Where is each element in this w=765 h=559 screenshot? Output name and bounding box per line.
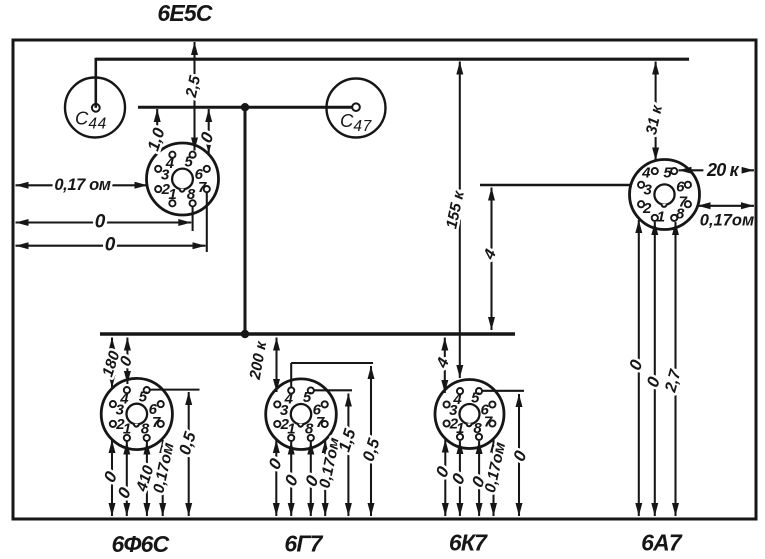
capacitor C44 [65,78,125,138]
svg-text:20 к: 20 к [706,160,740,180]
svg-text:6Ф6С: 6Ф6С [112,531,170,557]
wire: extension to 6А7 pin 3 [480,184,632,186]
svg-text:5: 5 [471,390,480,407]
leader 0,17ом (6К7 pin 7 to bottom) [482,440,509,517]
svg-text:8: 8 [676,206,685,223]
vertical feed wire [244,107,247,334]
svg-text:7: 7 [484,414,493,431]
leader 0,17ом (6Ф6С pin 7 to bottom) [150,440,177,516]
measurement 0 (lower bus to 6Ф6С pin 4) [117,338,137,385]
measurement 31 к (HT bus to 6А7 pin 4) [643,62,666,161]
wire: grid line to C47 [138,106,353,109]
svg-text:8: 8 [187,186,196,203]
svg-text:6А7: 6А7 [641,530,683,556]
svg-text:2: 2 [161,181,171,198]
svg-text:6Г7: 6Г7 [284,531,323,557]
leader 0 (6Г7 pin 2 to bottom) [264,440,286,516]
tube socket 6Ф6С [101,378,172,449]
svg-text:4: 4 [284,391,294,408]
leader 0 (6А7 pin 2 to bottom) [625,220,647,516]
svg-text:0: 0 [105,235,116,256]
svg-text:1: 1 [657,209,665,226]
measurement 2,5 (top border to 6Е5С pin 5) [183,42,205,151]
svg-text:6К7: 6К7 [449,530,488,556]
svg-text:5: 5 [139,389,148,406]
svg-text:7: 7 [198,179,207,196]
measurement 180 (lower bus to 6Ф6С pin 3) [99,338,124,389]
leader 0 (6К7 pin 2 to bottom) [431,440,453,517]
measurement 0 (left border to 6Е5С pin 8) [16,212,192,233]
junction dot on grid wire [241,103,249,111]
svg-text:8: 8 [473,420,482,437]
junction dot on lower bus [241,330,249,338]
measurement 0,5 (6Г7 pin 4 level to bottom) [359,366,384,516]
leader 2,7 (6А7 pin 8 to bottom) [662,222,685,516]
label tube 6А7 [641,530,683,556]
leader 0 (6Ф6С pin 2 to bottom) [99,440,121,516]
measurement 0,17 ом (left border to 6Е5С pin 2) [16,176,148,194]
svg-text:5: 5 [185,153,194,170]
label tube 6Ф6С [112,531,170,557]
extension line from 6Е5С pin 8 [192,206,194,232]
measurement 0 (6К7 pin 5 level to bottom) [509,394,531,516]
HT bus wire (horizontal) [96,58,689,61]
wire: C44 terminal to HT bus (up) [95,58,98,108]
measurement 4 (extension wire to lower bus) [480,188,500,331]
svg-text:4: 4 [165,155,175,172]
svg-text:3: 3 [644,182,653,199]
tube socket 6Е5С [147,143,219,215]
measurement 1,5 (6Г7 pin 5 level to bottom) [335,394,360,517]
lower bus wire [100,332,515,336]
svg-text:7: 7 [316,414,325,431]
extension line from 6Ф6С pin 5 [150,389,200,391]
measurement 0 (grid wire to 6Е5С pin 6) [196,109,218,154]
measurement 1,0 (grid wire to 6Е5С pin 3) [144,109,169,154]
svg-text:0,17ом: 0,17ом [700,212,754,230]
label tube 6К7 [449,530,488,556]
leader 0 (6К7 pin 1 to bottom) [447,441,469,516]
measurement 200 к (lower bus to 6Г7 pin 3) [247,338,280,393]
measurement 20 к (6А7 pin 5 to right border) [679,160,755,180]
measurement 0,17ом (6А7 pin 7 to right border) [698,202,755,229]
svg-text:8: 8 [141,421,150,438]
leader 0 (6А7 pin 1 to bottom) [643,222,665,516]
svg-text:4: 4 [452,391,462,408]
extension line from 6Г7 pin 4 (up and right) [291,363,373,388]
leader 0 (6Ф6С pin 1 to bottom) [113,442,135,517]
label tube 6Г7 [284,531,323,557]
svg-text:0,17 ом: 0,17 ом [54,176,110,194]
measurement 0 (left border to 6Е5С pin 7) [16,235,206,256]
leader 410 (6Ф6С pin 8 to bottom) [133,442,158,517]
leader 0,17ом (6Г7 pin 7 to bottom) [316,436,343,516]
svg-text:8: 8 [305,421,314,438]
extension line from 6Г7 pin 5 [314,389,353,391]
extension line from 6К7 pin 5 [482,390,524,392]
svg-text:5: 5 [663,164,672,181]
measurement 0,5 (6Ф6С pin 5 level to bottom) [175,392,200,516]
extension line from 6Е5С pin 7 [206,192,208,252]
measurement 4 (lower bus to 6К7 pin 3) [433,338,453,394]
label tube 6Е5С [157,0,213,26]
leader 0 (6К7 pin 8 to bottom) [467,441,489,516]
tube socket 6К7 [435,380,504,449]
tube socket 6А7 (top right) [630,160,700,230]
svg-text:2: 2 [642,200,652,217]
svg-text:4: 4 [119,390,129,407]
measurement 155 к (HT bus to 6К7 pin 4) [443,62,468,379]
svg-text:7: 7 [152,414,161,431]
leader 0 (6Г7 pin 1 to bottom) [280,442,302,517]
svg-text:4: 4 [641,164,651,181]
leader 0 (6Г7 pin 8 to bottom) [301,442,323,517]
tube socket 6Г7 [266,379,337,450]
svg-text:5: 5 [303,389,312,406]
svg-text:6Е5С: 6Е5С [157,0,213,26]
capacitor C47 [327,79,386,138]
svg-text:0: 0 [95,212,106,233]
